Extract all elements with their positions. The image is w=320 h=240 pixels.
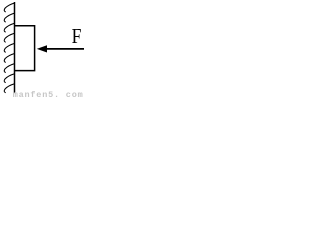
wall hatch 3 xyxy=(4,23,14,32)
wall hatch 1 xyxy=(4,3,14,12)
svg-text:manfen5. com: manfen5. com xyxy=(13,90,84,98)
wall hatch 9 xyxy=(4,84,14,93)
wall hatch 8 xyxy=(4,74,14,83)
wall hatch 7 xyxy=(4,64,14,73)
wall hatch 4 xyxy=(4,33,14,42)
force arrowhead xyxy=(37,45,47,52)
wall hatch 2 xyxy=(4,13,14,22)
wall hatch 5 xyxy=(4,43,14,52)
svg-text:F: F xyxy=(72,24,82,48)
block attached to wall xyxy=(15,26,35,71)
force arrow shaft xyxy=(47,48,85,50)
wall hatch 6 xyxy=(4,54,14,63)
wall line xyxy=(14,2,16,93)
